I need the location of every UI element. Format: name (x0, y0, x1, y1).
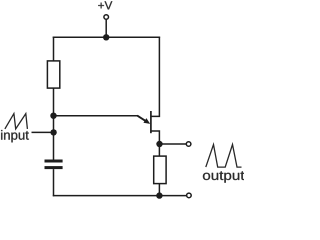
input label (1, 130, 29, 142)
resistor R2 (154, 156, 166, 184)
+V terminal circle (104, 15, 109, 20)
junction B1 node (156, 141, 162, 147)
transistor Q1 UJT base bar (150, 111, 152, 133)
resistor R1 (47, 61, 59, 88)
bottom rail wire (53, 195, 187, 197)
wire capacitor to bottom rail (53, 169, 55, 196)
capacitor C1 bottom plate (45, 166, 63, 169)
wire B1 lead (151, 131, 160, 144)
wire R1 to capacitor (53, 88, 55, 160)
input waveform icon (5, 114, 28, 129)
transistor Q1 emitter arrowhead (143, 118, 150, 124)
junction +V on rail (103, 34, 109, 40)
wire emitter lead (54, 115, 139, 117)
wire +V terminal to rail (105, 20, 107, 38)
output terminal bottom circle (187, 193, 192, 198)
output label (203, 171, 244, 182)
input wire (32, 131, 54, 133)
wire left vertical (rail to R1) (53, 37, 55, 62)
junction input node (50, 129, 56, 135)
output terminal top circle (186, 142, 191, 147)
wire B1 node to output terminal (159, 143, 186, 145)
output waveform icon (206, 145, 242, 168)
+V label (98, 1, 112, 9)
wire B1 node to R2 (158, 144, 160, 157)
capacitor C1 top plate (45, 160, 63, 163)
transistor Q1 emitter diagonal (137, 116, 146, 122)
wire B2 lead (151, 37, 160, 117)
junction emitter node (50, 113, 56, 119)
wire R2 to bottom rail (158, 183, 160, 195)
junction bottom node (156, 192, 162, 198)
top rail wire (53, 36, 160, 38)
